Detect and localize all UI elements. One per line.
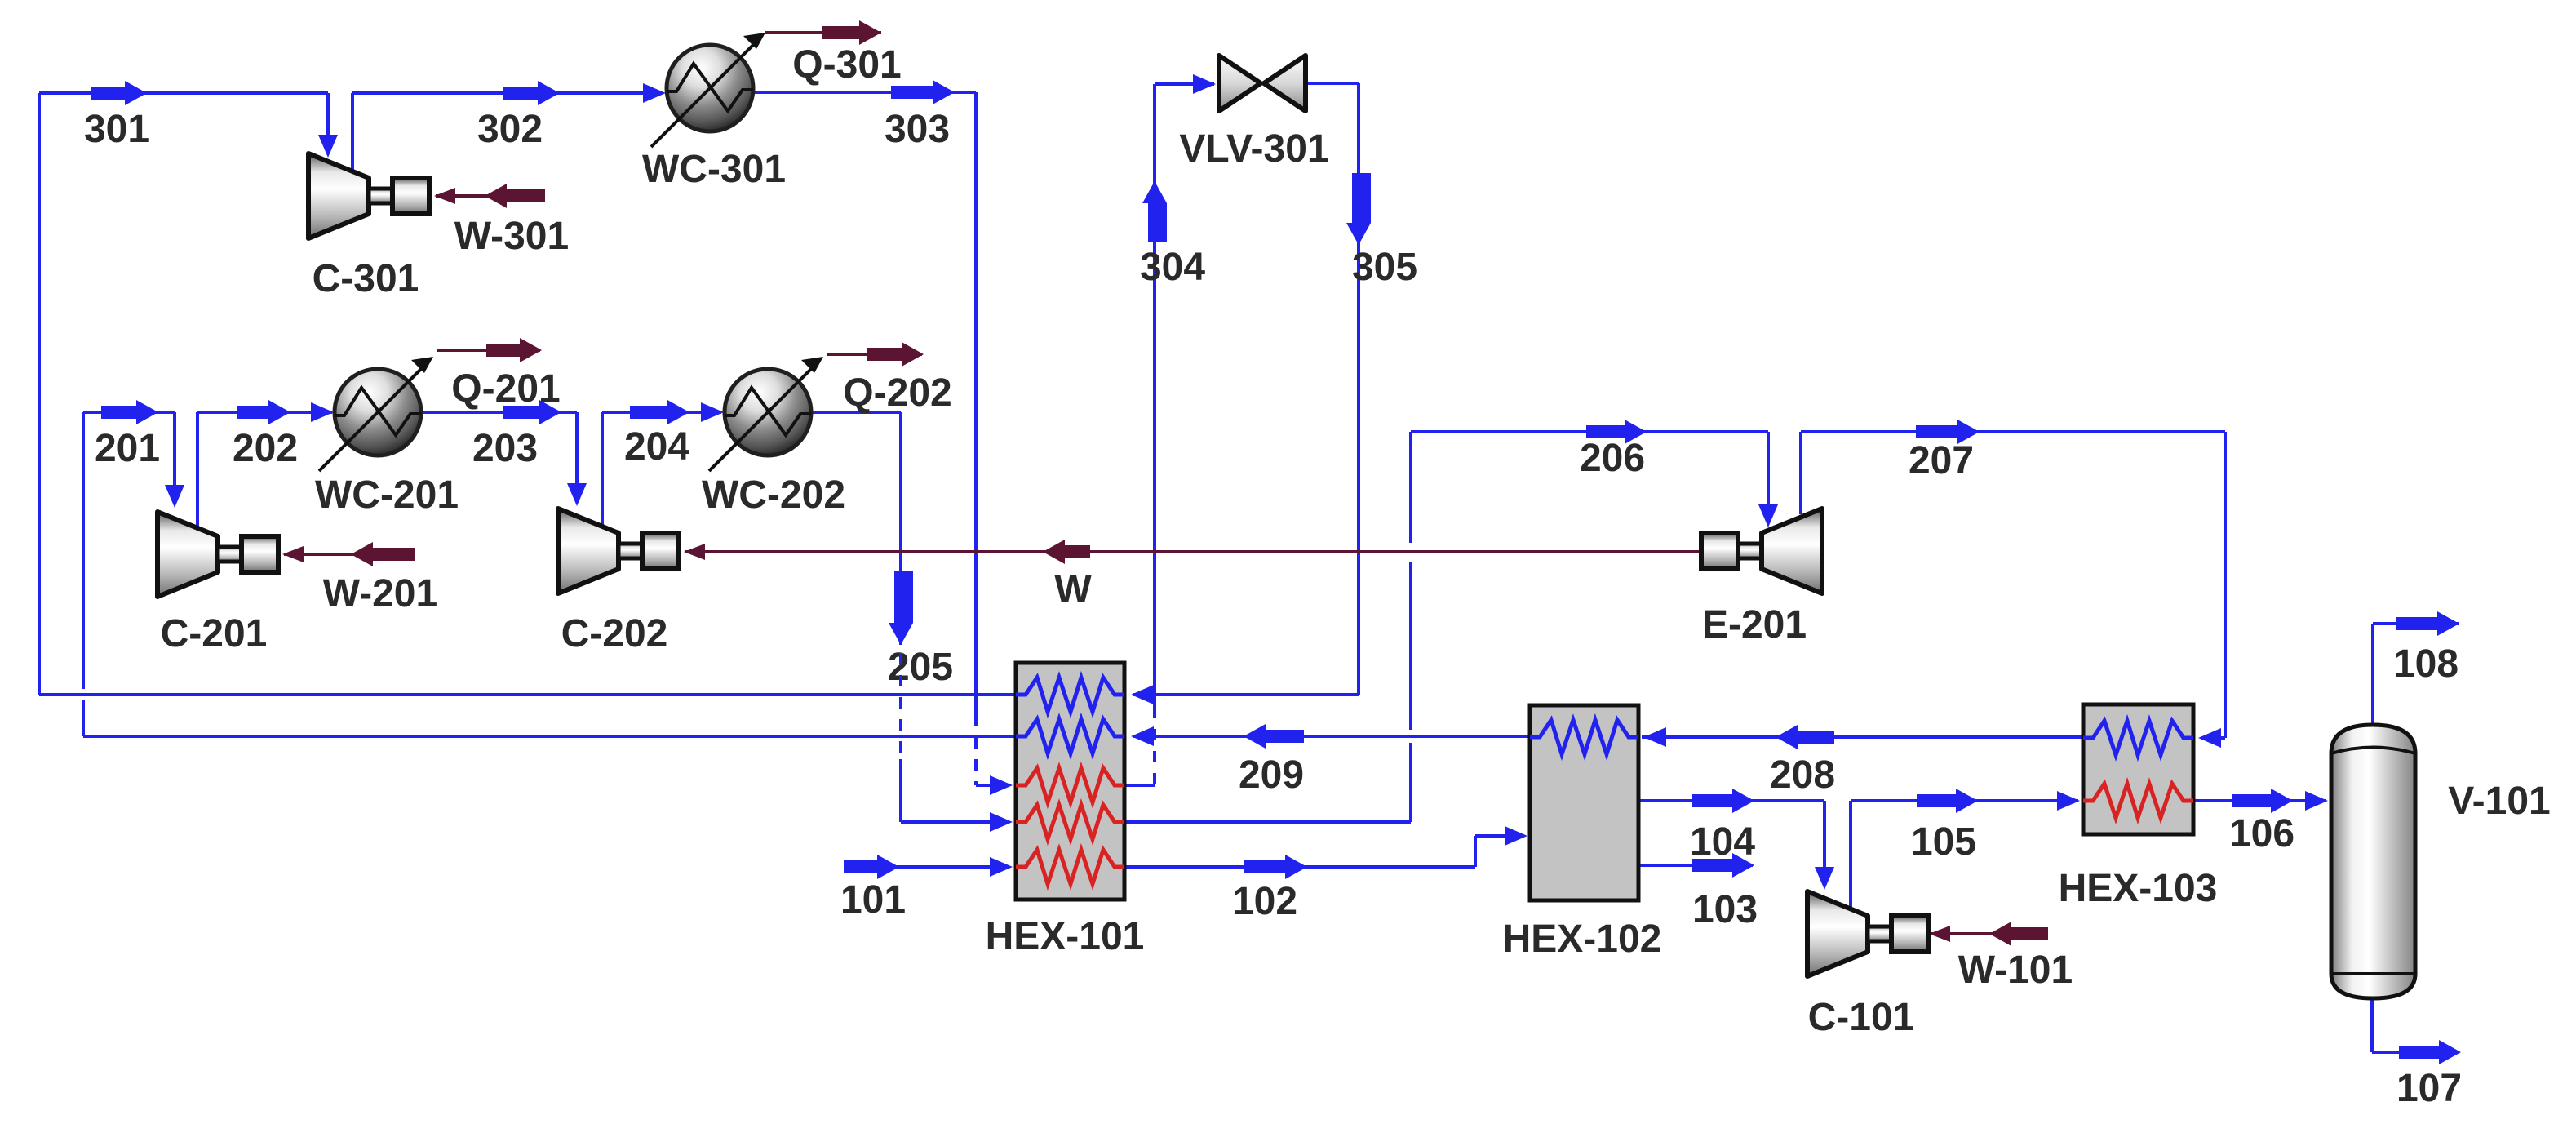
arrow into C-301 [318, 135, 338, 158]
arrow into WC-201 [311, 402, 334, 422]
svg-text:HEX-101: HEX-101 [986, 915, 1145, 958]
svg-text:Q-202: Q-202 [843, 371, 951, 415]
wire 303 drop dashed segment [974, 715, 978, 785]
svg-text:C-202: C-202 [561, 612, 668, 655]
wire C-101 inlet drop [1823, 801, 1826, 867]
wire 205 drop [899, 412, 902, 645]
arrow into HEX-101 hot coil 3 [990, 857, 1013, 877]
wire HEX-101 cold coil 1 outlet to left [39, 693, 1016, 696]
svg-text:W-101: W-101 [1958, 949, 2073, 992]
wire stream 105 [1851, 799, 2078, 802]
stream arrow 106 [2232, 789, 2293, 813]
wire HEX-101 hot coil 1 outlet [1124, 784, 1155, 787]
wire stream 103 [1638, 864, 1753, 867]
valve VLV-301 [1219, 56, 1261, 111]
stream arrow 204 [630, 400, 689, 424]
wire C-201 inlet drop [173, 412, 176, 485]
wire 205 elbow into HEX-101 hot coil 2 [901, 820, 991, 824]
svg-text:Q-301: Q-301 [792, 43, 901, 87]
compressor C-101 [1807, 891, 1868, 976]
svg-text:VLV-301: VLV-301 [1179, 127, 1328, 171]
heat exchanger HEX-101 shell [1016, 663, 1124, 900]
stream arrow 302 [503, 81, 560, 105]
wire 304 to valve [1155, 82, 1214, 86]
svg-text:C-201: C-201 [161, 612, 268, 655]
HEX-101 hot coil 3 [1016, 850, 1124, 884]
svg-text:303: 303 [885, 108, 950, 151]
arrow into E-201 [1758, 504, 1778, 527]
energy stream W-301 line [436, 194, 543, 198]
svg-text:205: 205 [888, 646, 953, 689]
svg-text:HEX-103: HEX-103 [2059, 867, 2218, 910]
wire 303 drop to HEX-101 [974, 92, 978, 715]
stream arrow 203 [503, 400, 561, 424]
svg-text:E-201: E-201 [1702, 603, 1807, 646]
wire 206 riser lowest [1409, 743, 1412, 822]
arrow into WC-202 [701, 402, 724, 422]
wire stream 304 riser [1153, 84, 1156, 707]
heat exchanger HEX-103 shell [2083, 704, 2193, 834]
arrow into HEX-102 hot side [1505, 826, 1527, 846]
svg-text:103: 103 [1692, 888, 1758, 931]
svg-text:209: 209 [1239, 753, 1304, 797]
HEX-101 cold coil 1 [1016, 678, 1124, 712]
svg-text:C-301: C-301 [313, 257, 419, 300]
svg-text:201: 201 [95, 427, 160, 470]
wire C-201 outlet riser [196, 412, 199, 527]
wire 206 riser [1409, 432, 1412, 543]
svg-text:305: 305 [1352, 246, 1417, 289]
svg-text:301: 301 [84, 108, 149, 151]
svg-text:W-201: W-201 [323, 572, 437, 615]
wire C-202 inlet drop [575, 412, 579, 483]
wire stream 303 [752, 91, 976, 94]
arrow into HEX-101 hot coil 2 [990, 812, 1013, 832]
svg-text:Q-201: Q-201 [451, 367, 560, 411]
vessel V-101 [2331, 725, 2415, 998]
svg-text:WC-201: WC-201 [315, 473, 459, 517]
wire stream 209 [1133, 735, 1530, 738]
wire valve outlet [1307, 82, 1359, 85]
stream arrow 209 [1244, 724, 1304, 749]
svg-text:104: 104 [1690, 820, 1755, 864]
stream arrow 101 [844, 855, 899, 879]
wire 305 into HEX-101 cold coil 1 [1133, 693, 1359, 696]
stream arrow 303 [891, 80, 955, 104]
stream arrow 205 [889, 571, 913, 645]
energy stream W-201 thick arrow [351, 542, 415, 566]
arrow into HEX-103 cold coil [2198, 728, 2221, 748]
wire 102 into HEX-102 [1475, 834, 1505, 838]
wire stream 202 [197, 411, 332, 414]
arrow into HEX-101 cold coil 2 [1131, 726, 1154, 746]
wire 205 dashed segment [899, 653, 902, 759]
cooler WC-202 [725, 369, 811, 455]
wire C-301 outlet riser [351, 93, 354, 170]
wire stream 203 [419, 411, 577, 414]
arrow into C-202 [567, 483, 587, 506]
energy stream W-301 arrowhead [434, 188, 455, 204]
svg-text:V-101: V-101 [2448, 780, 2550, 823]
energy stream Q-202 line [827, 353, 922, 356]
stream arrow 305 [1346, 173, 1371, 245]
stream arrow 107 [2399, 1040, 2461, 1064]
stream arrow 208 [1776, 725, 1834, 749]
wire 102 jog riser [1474, 836, 1477, 867]
wire 207 into HEX-103 cold coil [2201, 736, 2225, 740]
HEX-101 hot coil 2 [1016, 805, 1124, 839]
stream arrow 102 [1244, 855, 1307, 879]
wire left riser to 301 [38, 93, 41, 695]
arrow into WC-301 [643, 83, 666, 103]
svg-text:HEX-102: HEX-102 [1503, 918, 1662, 961]
svg-text:W-301: W-301 [454, 215, 569, 258]
svg-text:302: 302 [477, 108, 543, 151]
energy stream W-101 arrowhead [1929, 926, 1950, 942]
HEX-101 hot coil 1 [1016, 768, 1124, 802]
wire stream 106 [2193, 799, 2326, 802]
energy stream W-101 line [1931, 932, 2046, 935]
svg-text:106: 106 [2229, 812, 2294, 855]
wire 206 riser lower [1409, 562, 1412, 730]
arrow into HEX-101 hot coil 1 [990, 775, 1013, 795]
arrow into HEX-101 cold coil 1 [1131, 685, 1154, 704]
energy stream W thick arrow [1043, 540, 1090, 564]
stream arrow 108 [2396, 611, 2459, 636]
svg-text:204: 204 [624, 425, 689, 469]
svg-text:206: 206 [1580, 437, 1645, 480]
wire stream 205 from WC-202 [809, 411, 901, 414]
wire left riser to 201 upper [82, 412, 85, 689]
arrow into C-201 [165, 485, 184, 508]
energy stream W arrowhead [684, 544, 705, 560]
arrow into HEX-102 cold coil [1643, 727, 1666, 747]
svg-text:107: 107 [2396, 1067, 2462, 1110]
HEX-103 hot coil [2083, 784, 2193, 818]
wire stream 107 [2372, 1051, 2459, 1054]
arrow into C-101 [1815, 867, 1834, 890]
svg-text:304: 304 [1140, 246, 1205, 289]
svg-text:WC-301: WC-301 [642, 148, 786, 191]
energy stream W-201 arrowhead [282, 546, 304, 562]
wire C-202 outlet riser [601, 412, 604, 525]
energy stream W-101 thick arrow [1989, 922, 2048, 946]
svg-text:203: 203 [472, 427, 538, 470]
energy stream Q-301 line [765, 31, 881, 34]
wire stream 201 [83, 411, 175, 414]
expander E-201 [1701, 533, 1738, 569]
svg-text:101: 101 [840, 878, 906, 922]
energy stream W-301 thick arrow [485, 184, 545, 208]
wire stream 302 [352, 91, 645, 95]
energy stream Q-201 thick arrow [486, 338, 542, 362]
arrow into V-101 [2305, 791, 2328, 811]
wire stream 208 [1642, 735, 2083, 739]
wire stream 102 [1124, 865, 1475, 869]
wire C-101 outlet riser [1849, 801, 1852, 909]
wire stream 305 drop [1357, 83, 1360, 695]
wire stream 207 [1801, 430, 2225, 433]
stream arrow 201 [101, 400, 158, 424]
stream arrow 104 [1692, 789, 1754, 813]
cooler WC-201 [335, 369, 421, 455]
wire 107 drop [2370, 998, 2374, 1052]
energy stream W-201 line [284, 553, 413, 556]
wire stream 206 [1411, 430, 1768, 433]
HEX-101 cold coil 2 [1016, 719, 1124, 753]
arrow into VLV-301 [1193, 74, 1216, 94]
svg-text:W: W [1054, 568, 1092, 611]
stream arrow 202 [237, 400, 290, 424]
energy stream Q-301 thick arrow [822, 20, 881, 45]
wire 207 drop [2224, 432, 2227, 738]
svg-text:108: 108 [2393, 642, 2459, 686]
svg-text:105: 105 [1911, 820, 1976, 864]
stream arrow 103 [1692, 853, 1754, 878]
energy stream Q-202 thick arrow [867, 342, 924, 367]
wire stream 104 [1638, 799, 1824, 802]
arrow into HEX-103 hot coil [2057, 791, 2080, 811]
wire stream 301 horizontal [39, 91, 328, 95]
svg-text:202: 202 [233, 427, 298, 470]
svg-text:208: 208 [1770, 753, 1835, 797]
svg-text:207: 207 [1909, 439, 1974, 482]
wire stream 108 [2373, 622, 2459, 625]
HEX-102 cold coil [1530, 720, 1638, 754]
compressor C-201 [157, 512, 218, 597]
wire left riser to 201 lower [82, 700, 85, 736]
compressor C-202 [558, 509, 619, 593]
wire 205 lower drop [899, 759, 902, 822]
compressor C-301 [308, 153, 369, 238]
stream arrow 206 [1586, 420, 1647, 444]
HEX-103 cold coil [2083, 721, 2193, 755]
wire HEX-101 cold coil 2 outlet to left [83, 735, 1016, 738]
wire 108 riser [2371, 624, 2374, 725]
wire HEX-101 hot coil 2 outlet [1124, 820, 1411, 824]
wire stream 101 [844, 865, 991, 869]
wire E-201 inlet drop [1767, 432, 1770, 504]
energy stream W line E-201 to C-202 [685, 550, 1701, 553]
stream arrow 207 [1916, 420, 1980, 444]
wire E-201 outlet riser [1799, 432, 1802, 514]
stream arrow 105 [1917, 789, 1978, 813]
heat exchanger HEX-102 shell [1530, 705, 1638, 900]
svg-text:102: 102 [1232, 880, 1297, 923]
cooler WC-301 [667, 45, 753, 131]
wire stream 304 dashed segment [1153, 707, 1156, 785]
stream arrow 301 [91, 81, 147, 105]
svg-text:C-101: C-101 [1808, 996, 1915, 1039]
energy stream Q-201 line [437, 349, 540, 352]
wire 303 elbow into HEX-101 hot coil 1 [976, 784, 991, 787]
wire C-301 inlet drop [326, 93, 330, 135]
wire stream 204 [602, 411, 721, 414]
stream arrow 304 [1142, 181, 1167, 242]
svg-text:WC-202: WC-202 [702, 473, 845, 517]
